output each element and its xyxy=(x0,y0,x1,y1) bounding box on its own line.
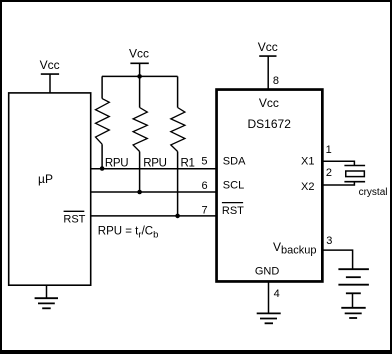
svg-text:RST: RST xyxy=(222,205,244,217)
Vcc power symbol (pull-up rail supply) xyxy=(129,47,149,77)
microprocessor box µP xyxy=(9,93,91,285)
svg-text:3: 3 xyxy=(326,235,332,247)
svg-text:RPU: RPU xyxy=(143,158,166,170)
wire X1 to crystal xyxy=(322,161,354,165)
svg-text:8: 8 xyxy=(273,75,279,87)
svg-text:GND: GND xyxy=(255,265,280,277)
ground symbol (chip GND) xyxy=(257,313,281,323)
wire X2 to crystal xyxy=(322,182,354,185)
junction: RPU to SDA xyxy=(100,166,105,171)
resistor RPU (SDA pull-up) xyxy=(96,76,110,168)
svg-text:Vcc: Vcc xyxy=(40,58,60,72)
svg-text:Vcc: Vcc xyxy=(258,40,278,54)
svg-text:µP: µP xyxy=(38,172,53,186)
svg-text:1: 1 xyxy=(326,144,332,156)
IC U1 DS1672 box xyxy=(217,90,323,282)
wire SDA (µP to DS1672 pin 5) xyxy=(91,168,216,170)
svg-text:crystal: crystal xyxy=(359,187,388,198)
svg-text:X2: X2 xyxy=(301,181,314,193)
svg-text:2: 2 xyxy=(326,167,332,179)
wire GND pin 4 xyxy=(268,282,270,314)
RST label (µP, active-low with overline) xyxy=(63,211,85,225)
wire: pull-up top rail xyxy=(102,75,178,77)
crystal Y1 xyxy=(344,166,365,182)
wire SCL (µP to DS1672 pin 6) xyxy=(91,191,216,193)
svg-text:Vcc: Vcc xyxy=(129,47,149,61)
svg-text:X1: X1 xyxy=(301,156,314,168)
Vcc power symbol (DS1672 pin 8 supply) xyxy=(258,40,278,90)
svg-text:SDA: SDA xyxy=(223,156,246,168)
junction: R1 to RST xyxy=(175,214,180,219)
battery (backup cell) xyxy=(338,269,369,308)
ground symbol (battery) xyxy=(341,308,365,318)
ground symbol (µP) xyxy=(35,286,58,309)
Vcc power symbol (µP supply) xyxy=(40,58,60,93)
junction: RPU to SCL xyxy=(137,190,142,195)
svg-text:RST: RST xyxy=(63,213,85,225)
svg-text:SCL: SCL xyxy=(223,180,244,192)
svg-text:RPU: RPU xyxy=(105,158,128,170)
junction: Vcc rail node xyxy=(137,74,142,79)
wire RST (µP to DS1672 pin 7) xyxy=(91,215,216,217)
svg-text:7: 7 xyxy=(201,205,207,217)
svg-text:4: 4 xyxy=(274,288,280,300)
svg-text:6: 6 xyxy=(202,180,208,192)
svg-text:5: 5 xyxy=(201,156,207,168)
wire Vbackup to battery xyxy=(322,250,353,269)
RST pin label (chip, with overline) xyxy=(222,203,244,217)
svg-text:DS1672: DS1672 xyxy=(248,117,292,131)
svg-text:R1: R1 xyxy=(181,158,195,170)
resistor RPU (SCL pull-up) xyxy=(133,76,147,192)
resistor R1 (RST pull-up) xyxy=(171,76,185,216)
svg-text:Vcc: Vcc xyxy=(259,96,279,110)
